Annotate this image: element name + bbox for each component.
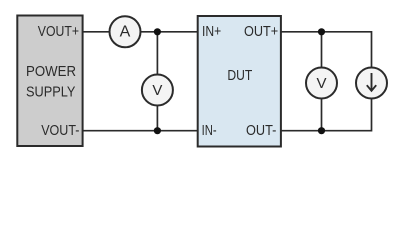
DUT box [198,16,281,147]
junction node: top V1 tap [154,28,161,35]
svg-text:VOUT+: VOUT+ [38,23,79,40]
wire: VOUT+ to ammeter [83,31,110,33]
svg-text:VOUT-: VOUT- [41,122,79,139]
svg-text:IN+: IN+ [202,23,221,40]
wire: ammeter to DUT IN+ [141,31,198,33]
svg-text:SUPPLY: SUPPLY [26,83,75,100]
svg-text:POWER: POWER [26,63,76,80]
ammeter A1 [110,16,141,47]
svg-text:A: A [120,24,131,41]
wire: voltmeter V1 top lead [156,32,158,75]
voltmeter V1 [142,75,173,106]
junction node: top V2 tap [318,28,325,35]
svg-text:IN-: IN- [202,122,217,139]
wire: bottom VOUT- to DUT IN- [83,130,198,132]
wire: voltmeter V2 top lead [321,32,323,68]
junction node: bottom V2 tap [318,127,325,134]
svg-text:OUT+: OUT+ [244,23,278,40]
voltmeter V2 [306,68,337,99]
svg-text:OUT-: OUT- [246,122,276,139]
wire: voltmeter V2 bottom lead [321,99,323,131]
wire: voltmeter V1 bottom lead [156,106,158,131]
arrow symbol [367,73,376,91]
wire: DUT OUT+ to top-right corner [281,32,372,68]
power supply box [17,16,82,147]
wire: DUT OUT- to bottom-right corner [281,99,372,131]
junction node: bottom V1 tap [154,127,161,134]
svg-text:V: V [152,82,162,99]
svg-text:DUT: DUT [227,67,252,84]
current load (down-arrow source) [356,68,387,99]
svg-text:V: V [316,75,326,92]
